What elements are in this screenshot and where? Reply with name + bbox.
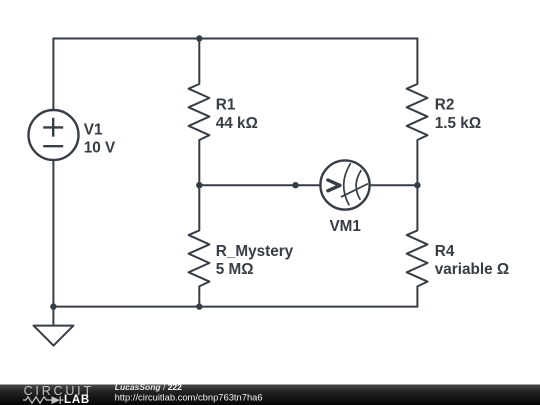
svg-text:LAB: LAB (64, 394, 90, 405)
svg-text:R_Mystery: R_Mystery (216, 243, 294, 260)
svg-text:http://circuitlab.com/cbnp763t: http://circuitlab.com/cbnp763tn7ha6 (115, 391, 263, 402)
svg-text:1.5 kΩ: 1.5 kΩ (435, 115, 481, 132)
svg-text:LucasSong / 222: LucasSong / 222 (115, 382, 182, 392)
svg-text:VM1: VM1 (329, 218, 361, 235)
svg-text:R2: R2 (435, 96, 455, 113)
svg-text:R1: R1 (216, 96, 236, 113)
svg-text:R4: R4 (435, 243, 455, 260)
svg-text:10 V: 10 V (84, 140, 116, 157)
svg-text:5 MΩ: 5 MΩ (216, 261, 254, 278)
svg-text:V1: V1 (84, 121, 103, 138)
svg-text:variable Ω: variable Ω (435, 261, 509, 278)
svg-text:44 kΩ: 44 kΩ (216, 115, 258, 132)
